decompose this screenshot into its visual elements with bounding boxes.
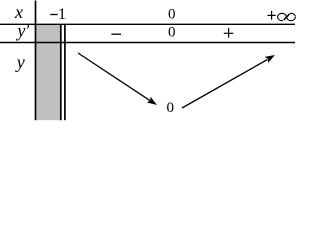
- svg-text:0: 0: [166, 100, 174, 116]
- svg-text:y′: y′: [15, 20, 30, 40]
- decreasing arrow shaft: [78, 53, 150, 101]
- sign minus: [111, 33, 121, 35]
- svg-text:0: 0: [168, 7, 176, 23]
- plus of +infinity vertical stroke: [271, 11, 273, 20]
- svg-text:0: 0: [168, 25, 176, 41]
- vertical separator line: [35, 1, 37, 121]
- forbidden value shaded band: [36, 24, 60, 120]
- infinity symbol right loop: [287, 13, 296, 20]
- increasing arrow shaft: [182, 60, 268, 109]
- double bar left line: [60, 24, 62, 120]
- sign plus horizontal stroke: [224, 32, 234, 34]
- plus of +infinity horizontal stroke: [268, 14, 276, 16]
- horizontal line under x row: [0, 23, 295, 25]
- svg-text:y: y: [15, 52, 25, 72]
- value -1 minus stroke: [50, 14, 57, 16]
- decreasing arrow head: [147, 97, 157, 105]
- increasing arrow head: [265, 55, 275, 63]
- svg-text:1: 1: [58, 6, 66, 23]
- svg-text:x: x: [14, 2, 23, 22]
- infinity symbol crossing stroke: [284, 14, 290, 20]
- double bar right line: [64, 24, 66, 120]
- infinity symbol left loop: [278, 13, 287, 20]
- sign plus vertical stroke: [228, 28, 230, 38]
- horizontal line under y' row: [0, 42, 295, 44]
